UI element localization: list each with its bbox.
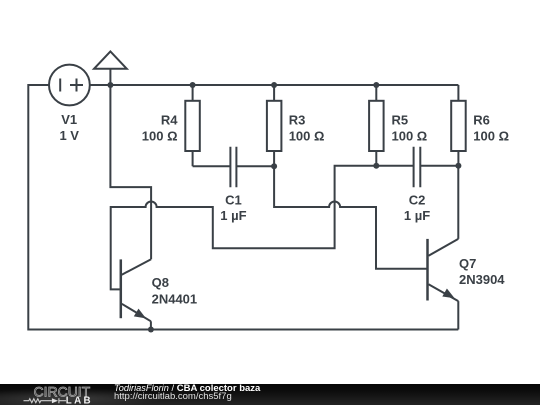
wire: R3/C1 node down and over to Q7 base (hops over x=334.6 wire) [274,166,426,269]
svg-text:100 Ω: 100 Ω [142,128,178,143]
svg-text:2N3904: 2N3904 [459,272,505,287]
svg-text:R4: R4 [161,113,178,128]
wire: R5 node to C2 left plate [376,165,413,167]
svg-text:C2: C2 [409,193,426,208]
label Q8 name and part number [152,275,198,307]
wire: R4 bottom to C1 left plate [193,165,231,167]
label R4 name and value [142,113,178,144]
label R6 name and value [473,113,509,144]
footer text line 2: url [114,392,232,402]
wire: top supply rail from V1 to R6 [90,84,459,86]
svg-text:Q7: Q7 [459,256,476,271]
wire: C2 right plate to R6 bottom node [420,165,458,167]
wire: supply node down to Q8 collector [110,85,151,259]
svg-text:C1: C1 [225,193,242,208]
footer highlight [0,384,260,405]
label V1 name and value [59,112,79,143]
junction node: R3 top on rail [271,82,277,88]
junction node: R5 top on rail [373,82,379,88]
svg-text:R3: R3 [289,113,306,128]
svg-text:100 Ω: 100 Ω [289,128,325,143]
svg-text:V1: V1 [61,112,77,127]
svg-text:R5: R5 [392,113,409,128]
label Q7 name and part number [459,256,505,287]
label R3 name and value [289,113,325,144]
svg-text:2N4401: 2N4401 [152,291,198,306]
voltage source V1 [49,65,90,106]
wire: R6 node down to Q7 collector [457,166,459,239]
capacitor C1 [230,147,236,188]
transistor Q8 2N4401 [121,259,151,329]
junction node: R5 bottom / C2 left [373,163,379,169]
svg-text:100 Ω: 100 Ω [392,128,428,143]
wire: R5 bottom node over and down to Q8 base (hops over x=151.1 wire) [111,166,377,290]
resistor R3 [267,85,282,166]
label R5 name and value [392,113,428,144]
transistor Q7 2N3904 [428,239,459,330]
svg-text:1 µF: 1 µF [220,208,246,223]
junction node: R4 top on rail [190,82,196,88]
wire: V1 left lead, left column and ground/bottom rail [28,85,458,330]
svg-text:R6: R6 [473,113,490,128]
capacitor C2 [414,147,421,188]
junction node: supply rail / V1 / antenna [107,82,113,88]
svg-text:LAB: LAB [66,396,93,405]
footer attribution bar [0,384,540,405]
resistor R5 [369,85,384,166]
svg-text:100 Ω: 100 Ω [473,128,509,143]
junction node: R6 bottom / C2 right / Q7 collector [455,163,461,169]
resistor R4 [185,85,200,166]
junction node: Q8 emitter on ground rail [148,327,154,333]
label C2 name and value [404,193,430,224]
junction node: R3 bottom / C1 right [271,163,277,169]
resistor R6 [451,85,466,166]
wire: C1 right plate to R3 bottom node [236,165,274,167]
footer text line 1: author / title [114,384,260,394]
vcc supply arrow (antenna triangle) [94,51,127,85]
svg-text:1 V: 1 V [59,128,79,143]
svg-text:Q8: Q8 [152,275,169,290]
CircuitLab logo [0,376,110,405]
label C1 name and value [220,193,246,224]
svg-text:1 µF: 1 µF [404,208,430,223]
